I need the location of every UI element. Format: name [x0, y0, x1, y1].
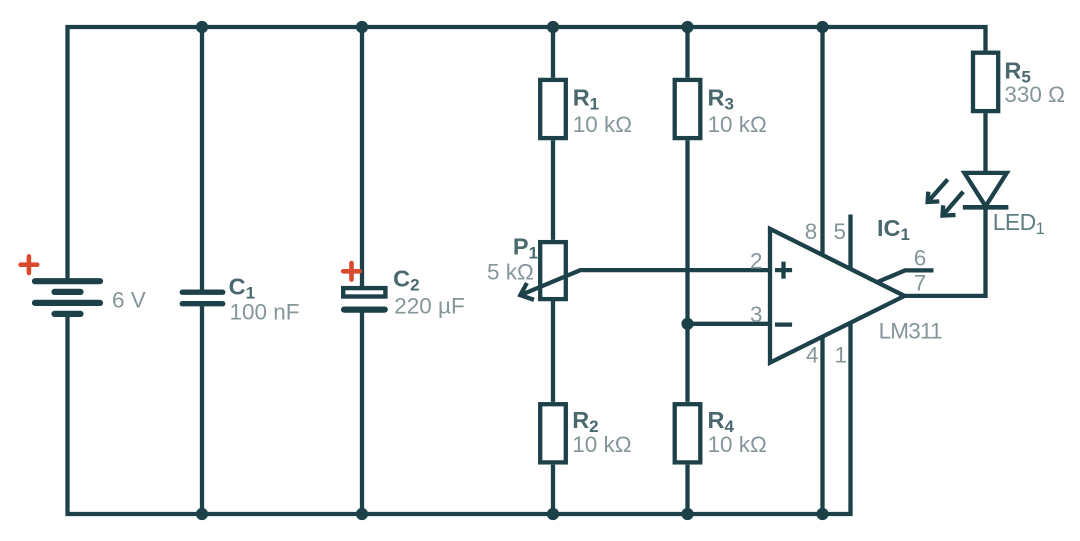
svg-text:6 V: 6 V — [112, 288, 146, 313]
svg-text:4: 4 — [806, 343, 819, 368]
svg-text:1: 1 — [835, 343, 848, 368]
svg-text:330 Ω: 330 Ω — [1004, 82, 1065, 107]
svg-text:10 kΩ: 10 kΩ — [572, 432, 631, 457]
svg-text:5: 5 — [834, 219, 847, 244]
svg-text:5 kΩ: 5 kΩ — [487, 260, 534, 285]
svg-text:10 kΩ: 10 kΩ — [708, 432, 767, 457]
svg-text:10 kΩ: 10 kΩ — [573, 112, 632, 137]
svg-text:2: 2 — [750, 248, 763, 273]
svg-text:8: 8 — [805, 219, 818, 244]
svg-text:3: 3 — [750, 302, 763, 327]
svg-text:10 kΩ: 10 kΩ — [708, 112, 767, 137]
svg-text:7: 7 — [914, 271, 927, 296]
svg-text:100 nF: 100 nF — [230, 299, 300, 324]
svg-text:220 µF: 220 µF — [394, 294, 465, 319]
svg-text:LM311: LM311 — [879, 319, 942, 344]
svg-text:6: 6 — [914, 246, 927, 271]
